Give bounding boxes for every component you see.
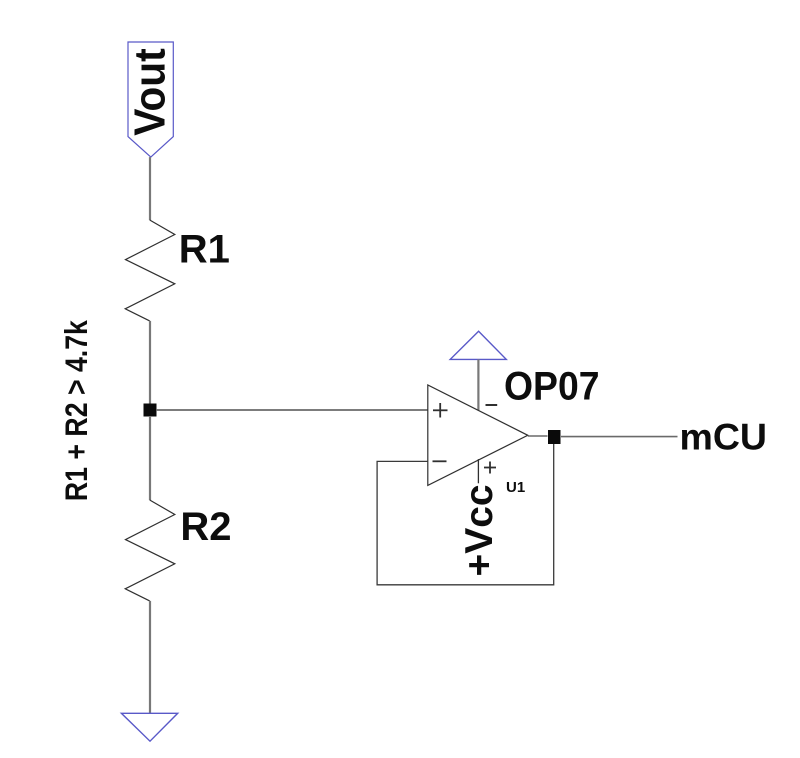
op-amp - input marker [433, 460, 447, 462]
node B (output junction) [548, 430, 561, 444]
pin label + (bottom power pin) [484, 467, 496, 469]
op-amp U1 body [428, 385, 528, 485]
wire Vout to R1 [149, 157, 151, 220]
wire R1 to node A [149, 321, 151, 404]
resistor R2 [125, 500, 175, 601]
node A (R1/R2 junction) [144, 404, 157, 417]
power flag +Vcc (triangle up) [450, 331, 506, 359]
ground [121, 713, 177, 741]
net flag Vout [128, 42, 173, 157]
wire R2 to ground [149, 601, 151, 713]
wire feedback loop (inverting input to output) [377, 444, 554, 585]
svg-text:OP07: OP07 [504, 365, 600, 409]
resistor R1 [125, 220, 175, 321]
svg-text:R1: R1 [179, 228, 230, 272]
pin line bottom power pin [477, 459, 479, 483]
svg-text:R2: R2 [180, 505, 231, 549]
svg-text:+Vcc: +Vcc [458, 485, 501, 577]
wire node A to R2 [149, 416, 151, 500]
svg-text:Vout: Vout [126, 48, 175, 136]
op-amp + input marker [433, 409, 448, 411]
pin label - (top power pin) [486, 404, 498, 406]
svg-text:R1 + R2 > 4.7k: R1 + R2 > 4.7k [58, 320, 94, 501]
wire node B to mCU [561, 436, 678, 438]
svg-text:U1: U1 [506, 479, 525, 496]
wire power flag to op-amp V+ pin [477, 359, 479, 410]
svg-text:mCU: mCU [680, 416, 768, 458]
wire op-amp output to node B [528, 435, 548, 437]
wire node A to op-amp non-inverting input [156, 409, 428, 411]
